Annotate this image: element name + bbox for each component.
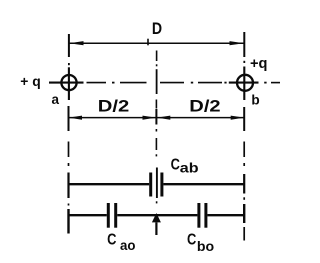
bottom row right terminal bar [243,204,245,223]
charge a vertical crosshair [68,67,70,100]
wire Cab row left [69,183,150,185]
svg-text:+ q: + q [20,73,41,89]
horizontal axis dash-dot right of b [264,82,266,84]
svg-text:bo: bo [197,239,214,254]
D/2 extension line at a [68,106,70,131]
centerline dot below D/2 [155,129,157,132]
svg-text:C: C [187,232,197,249]
dimension line D/2 left [69,117,157,119]
wire bottom row Cbo to b [207,214,244,216]
dimension D extension line at b [243,32,245,57]
centerline dot [155,154,157,156]
capacitor Cao right plate [114,203,117,228]
D/2 extension line at b [243,107,245,131]
dimension D extension line at a [68,34,70,57]
centerline dash [155,138,157,150]
charge b circle [237,75,253,91]
arrowhead right of dimension D [230,41,245,45]
column a dot below Cab bar [68,204,70,206]
column b dash below bottom bar [243,227,245,241]
arrowhead left of dimension D [69,41,84,45]
column b dot below Cab bar [243,197,245,200]
horizontal axis dash-dot between charges [87,82,107,84]
centerline dash above D/2 [155,100,157,109]
svg-text:C: C [107,232,117,249]
capacitor Cab left plate [149,173,152,197]
svg-text:ao: ao [120,238,136,253]
horizontal axis solid through charge b [229,82,259,84]
dimension line D/2 right [156,117,244,119]
Cab row left terminal bar [67,173,69,199]
capacitor Cao left plate [107,203,110,228]
node o arrow stem [155,222,157,235]
arrowheads D/2 left segment [69,116,83,120]
svg-text:b: b [251,92,259,107]
arrowheads D/2 right segment [157,116,171,120]
svg-text:D/2: D/2 [98,97,130,116]
wire bottom row Cao to Cbo [117,214,197,216]
node o arrowhead pointing up at center [152,213,161,222]
charge a circle [61,75,76,90]
svg-text:a: a [52,91,60,107]
column a dot [68,163,70,166]
svg-text:+q: +q [250,56,268,72]
Cab row right terminal bar [243,174,245,194]
charge b vertical crosshair [243,67,245,101]
column b dash between D/2 and Cab row [243,142,245,158]
dimension line D [69,42,244,44]
centerline solid through charge axis [156,69,158,94]
column a dash between D/2 and Cab row [68,142,70,158]
dot above charge a [68,63,70,65]
dot above charge b [243,61,245,63]
small tick on dimension line D [147,39,149,46]
svg-text:D: D [152,19,162,38]
centerline below D dimension [156,51,158,62]
D/2 center extension tick [155,109,157,125]
centerline solid through Cab [156,168,158,199]
wire Cab row right [163,183,244,185]
svg-text:C: C [171,157,181,174]
capacitor Cab right plate [160,173,163,197]
svg-text:ab: ab [180,161,199,176]
wire bottom row a to Cao [69,214,107,216]
svg-text:D/2: D/2 [189,97,220,116]
bottom row left terminal bar [67,209,69,234]
capacitor Cbo right plate [204,203,207,228]
horizontal axis solid through charge a [49,82,84,84]
centerline dot below Cab [156,201,158,203]
capacitor Cbo left plate [197,203,200,228]
horizontal axis dot left of b [224,82,226,84]
column b dot [243,163,245,166]
